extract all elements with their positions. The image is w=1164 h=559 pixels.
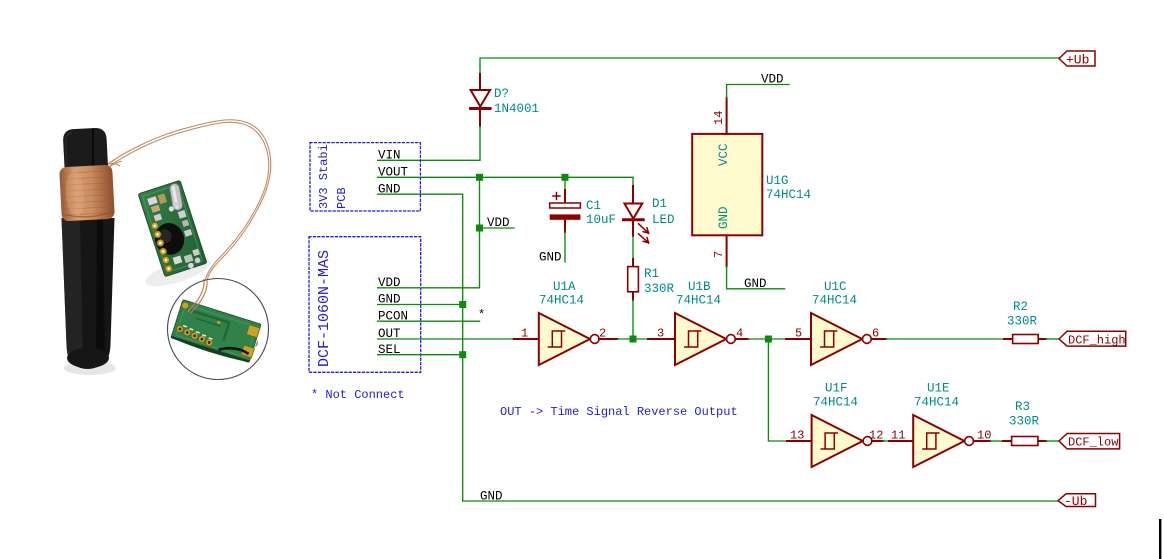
IC power block U1G <box>692 134 762 235</box>
wire GND module <box>378 304 463 306</box>
antenna twisted wire loop <box>108 120 271 281</box>
svg-text:VDD: VDD <box>487 216 510 230</box>
svg-text:3V3 Stabi: 3V3 Stabi <box>317 144 331 209</box>
resistor R3 <box>1003 437 1046 446</box>
svg-text:OUT -> Time Signal Reverse Out: OUT -> Time Signal Reverse Output <box>500 405 738 419</box>
inverter U1B <box>648 313 748 365</box>
svg-text:GND: GND <box>378 293 401 307</box>
label U1F 74HC14 <box>813 382 858 410</box>
svg-text:D1: D1 <box>652 197 667 211</box>
junction SEL <box>459 351 466 358</box>
svg-text:4: 4 <box>736 327 743 341</box>
inverter U1E <box>889 415 990 467</box>
svg-text:-Ub: -Ub <box>1064 494 1087 509</box>
net label OUT <box>378 327 401 341</box>
wire U1C out to R2 <box>886 338 1004 340</box>
svg-text:SEL: SEL <box>378 343 401 357</box>
wire VOUT rail <box>378 176 633 178</box>
dashed box DCF-1060N-MAS <box>309 237 421 373</box>
net label SEL <box>378 343 401 357</box>
inset circle <box>168 279 269 380</box>
svg-text:74HC14: 74HC14 <box>914 396 959 410</box>
net label GND (U1G) <box>744 277 767 291</box>
pin numbers 11 10 <box>891 429 991 443</box>
net label GND (C1) <box>539 250 562 264</box>
net label VDD (U1G) <box>761 73 784 87</box>
capacitor C1 <box>550 177 581 262</box>
dashed box 3V3 Stabi PCB <box>310 143 420 211</box>
svg-text:7: 7 <box>712 251 726 258</box>
junction GND module <box>459 301 466 308</box>
junction R1 node <box>630 336 637 343</box>
svg-text:GND: GND <box>378 182 401 196</box>
svg-text:+Ub: +Ub <box>1066 53 1089 68</box>
wire U1F out to U1E <box>883 440 889 442</box>
svg-text:U1A: U1A <box>553 280 576 294</box>
text 3V3 Stabi PCB <box>317 144 349 209</box>
svg-text:VDD: VDD <box>378 276 401 290</box>
main PCB module <box>138 180 207 277</box>
net label PCON <box>378 309 408 323</box>
net label VIN <box>378 149 401 163</box>
svg-text:U1G: U1G <box>766 174 789 188</box>
svg-text:330R: 330R <box>644 282 675 296</box>
svg-text:D?: D? <box>494 87 509 101</box>
wire VDD to pin14 <box>727 85 789 98</box>
svg-text:DCF_high: DCF_high <box>1068 334 1126 348</box>
svg-text:GND: GND <box>480 489 503 503</box>
crystal <box>169 183 184 211</box>
svg-text:DCF_low: DCF_low <box>1068 436 1119 450</box>
svg-text:14: 14 <box>712 111 726 125</box>
svg-text:10: 10 <box>977 429 991 443</box>
inset wires <box>188 279 207 313</box>
net label GND <box>378 182 401 196</box>
label U1G 74HC14 <box>766 174 811 202</box>
pin 7 <box>712 235 727 266</box>
wire R2 to DCF_high <box>1046 338 1059 340</box>
svg-text:1N4001: 1N4001 <box>494 102 539 116</box>
svg-text:GND: GND <box>717 206 731 229</box>
diode D? <box>471 74 491 126</box>
svg-text:VIN: VIN <box>378 149 401 163</box>
wire VDD vertical from VOUT <box>378 177 480 287</box>
svg-text:330R: 330R <box>1009 415 1040 429</box>
wire VIN <box>378 126 480 160</box>
label D? 1N4001 <box>494 87 539 116</box>
svg-text:*: * <box>478 308 485 322</box>
wire U1B out to U1C <box>748 338 786 340</box>
wire U1E out to R3 <box>990 440 1003 442</box>
svg-text:PCON: PCON <box>378 309 408 323</box>
net label VOUT <box>378 166 409 180</box>
wire GND from 3V3 <box>378 194 463 501</box>
inverter U1C <box>786 313 886 365</box>
inverter U1A <box>514 313 618 365</box>
svg-text:12: 12 <box>869 429 883 443</box>
wires into inset <box>193 279 207 307</box>
pin numbers 3 4 <box>657 327 743 341</box>
label U1B 74HC14 <box>676 280 721 308</box>
svg-text:OUT: OUT <box>378 327 401 341</box>
label R2 330R <box>1007 300 1038 329</box>
svg-text:74HC14: 74HC14 <box>813 396 858 410</box>
svg-text:PCB: PCB <box>335 187 349 209</box>
svg-text:U1C: U1C <box>824 280 847 294</box>
smd parts <box>147 189 203 275</box>
svg-text:R1: R1 <box>644 267 659 281</box>
svg-text:U1B: U1B <box>688 280 711 294</box>
svg-text:GND: GND <box>539 250 562 264</box>
label C1 10uF <box>586 199 616 227</box>
junction VDD stub <box>476 225 483 232</box>
copper coil band <box>59 165 115 222</box>
LED D1 <box>624 186 649 243</box>
ferrite rod top cap <box>63 127 109 171</box>
pin 14 <box>712 98 727 134</box>
resistor R2 <box>1004 335 1046 344</box>
wire LED branch <box>632 177 634 186</box>
wire VDD stub <box>480 227 515 229</box>
wire U1A out to U1B <box>618 338 649 340</box>
svg-text:74HC14: 74HC14 <box>766 188 811 202</box>
label U1C 74HC14 <box>812 280 857 308</box>
svg-text:R2: R2 <box>1013 300 1028 314</box>
ferrite rod lower body <box>62 218 115 369</box>
svg-text:U1F: U1F <box>825 382 848 396</box>
svg-text:13: 13 <box>790 429 804 443</box>
label U1E 74HC14 <box>914 382 959 410</box>
sheet border fragment <box>1159 519 1161 559</box>
black glob chip <box>151 219 188 258</box>
wire OUT <box>378 338 514 340</box>
svg-text:C1: C1 <box>586 199 601 213</box>
resistor R1 <box>628 259 639 300</box>
junction VOUT/VDD <box>476 174 483 181</box>
text * Not Connect <box>311 388 405 402</box>
svg-text:LED: LED <box>652 213 675 227</box>
svg-text:5: 5 <box>795 327 802 341</box>
net label GND (module) <box>378 293 401 307</box>
junction C1 <box>562 174 569 181</box>
svg-text:VCC: VCC <box>717 143 731 166</box>
label R3 330R <box>1009 400 1040 429</box>
text OUT note <box>500 405 738 419</box>
pin numbers 13 12 <box>790 429 883 443</box>
wire bottom GND rail <box>463 500 1058 502</box>
wire R1 to out node <box>632 300 634 339</box>
svg-text:11: 11 <box>891 429 905 443</box>
label R1 330R <box>644 267 675 296</box>
wire LED to R1 <box>632 236 634 259</box>
wire +Ub top rail <box>480 58 1059 126</box>
global label +Ub <box>1059 51 1095 68</box>
svg-text:U1E: U1E <box>927 382 950 396</box>
text DCF-1060N-MAS <box>316 250 333 367</box>
label U1A 74HC14 <box>539 280 584 308</box>
svg-text:DCF-1060N-MAS: DCF-1060N-MAS <box>316 250 333 367</box>
global label DCF_low <box>1059 434 1120 450</box>
net label GND (bottom) <box>480 489 503 503</box>
pin numbers 1 2 <box>521 327 606 341</box>
inset pcb bottom view <box>170 300 264 366</box>
wire branch down to U1F <box>768 339 787 441</box>
inverter U1F <box>787 415 883 467</box>
svg-text:74HC14: 74HC14 <box>812 294 857 308</box>
label D1 LED <box>652 197 675 227</box>
wire R3 to DCF_low <box>1046 440 1059 442</box>
wire PCON stub <box>378 320 480 322</box>
soft shadows <box>64 252 213 375</box>
svg-text:VDD: VDD <box>761 73 784 87</box>
junction branch node <box>765 336 772 343</box>
wire GND pin7 <box>727 266 785 289</box>
gold through-hole pads <box>150 221 173 273</box>
svg-text:* Not Connect: * Not Connect <box>311 388 405 402</box>
svg-text:74HC14: 74HC14 <box>539 294 584 308</box>
svg-text:6: 6 <box>872 327 879 341</box>
svg-text:3: 3 <box>657 327 664 341</box>
star not-connect <box>478 308 485 322</box>
svg-text:330R: 330R <box>1007 315 1038 329</box>
net label VDD <box>487 216 510 230</box>
svg-text:VOUT: VOUT <box>378 166 409 180</box>
wire SEL <box>378 354 463 356</box>
svg-text:2: 2 <box>599 327 606 341</box>
global label DCF_high <box>1059 331 1126 347</box>
svg-text:10uF: 10uF <box>586 213 616 227</box>
svg-text:R3: R3 <box>1015 400 1030 414</box>
global label -Ub <box>1058 494 1096 509</box>
svg-text:GND: GND <box>744 277 767 291</box>
svg-text:1: 1 <box>521 327 528 341</box>
svg-text:74HC14: 74HC14 <box>676 294 721 308</box>
net label VDD (module) <box>378 276 401 290</box>
pin numbers 5 6 <box>795 327 879 341</box>
